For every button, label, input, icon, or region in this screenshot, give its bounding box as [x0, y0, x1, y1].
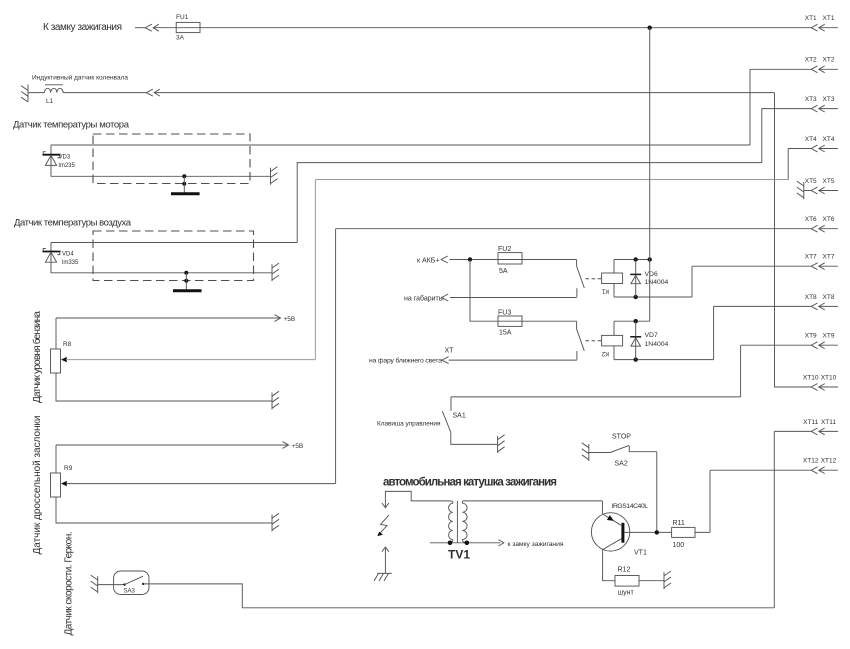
svg-text:R8: R8 — [63, 341, 72, 348]
svg-text:XT12: XT12 — [821, 458, 837, 465]
svg-text:XT5: XT5 — [823, 178, 835, 185]
svg-text:XT8: XT8 — [823, 294, 835, 301]
svg-text:XT6: XT6 — [805, 216, 817, 223]
svg-text:XT9: XT9 — [805, 333, 817, 340]
svg-text:Клавиша управления: Клавиша управления — [377, 420, 441, 427]
svg-text:XT11: XT11 — [821, 419, 836, 426]
svg-text:XT7: XT7 — [805, 254, 817, 261]
svg-text:Датчик дроссельной заслонки: Датчик дроссельной заслонки — [32, 416, 43, 555]
svg-text:Датчик уровня бензина: Датчик уровня бензина — [31, 311, 43, 403]
svg-text:FU3: FU3 — [498, 310, 511, 317]
svg-text:lm235: lm235 — [59, 163, 76, 169]
svg-text:VD3: VD3 — [59, 155, 71, 161]
svg-text:1N4004: 1N4004 — [645, 279, 669, 286]
svg-text:XT5: XT5 — [805, 178, 817, 185]
svg-text:+5В: +5В — [292, 443, 304, 450]
svg-text:3А: 3А — [176, 35, 185, 42]
svg-text:к АКБ+: к АКБ+ — [417, 258, 439, 265]
svg-text:L1: L1 — [46, 98, 54, 105]
svg-text:Датчик температуры воздуха: Датчик температуры воздуха — [14, 218, 132, 229]
svg-text:R12: R12 — [618, 567, 631, 574]
svg-text:1N4004: 1N4004 — [645, 341, 669, 348]
svg-text:15А: 15А — [499, 330, 512, 337]
svg-text:XT10: XT10 — [821, 374, 837, 381]
svg-text:IRGS14C40L: IRGS14C40L — [612, 503, 649, 510]
svg-text:к замку зажигания: к замку зажигания — [508, 541, 564, 548]
svg-text:на фару ближнего света: на фару ближнего света — [369, 357, 442, 365]
svg-text:XT4: XT4 — [823, 136, 835, 143]
svg-text:XT1: XT1 — [823, 15, 835, 22]
svg-text:VT1: VT1 — [634, 550, 647, 557]
svg-text:XT1: XT1 — [805, 15, 817, 22]
svg-text:Датчик температуры мотора: Датчик температуры мотора — [13, 120, 130, 131]
svg-text:Датчик скорости. Геркон.: Датчик скорости. Геркон. — [64, 532, 75, 636]
svg-text:XT11: XT11 — [803, 419, 818, 426]
svg-text:К1: К1 — [601, 288, 609, 295]
svg-text:ХТ: ХТ — [445, 348, 455, 355]
svg-text:шунт: шунт — [618, 590, 635, 597]
svg-text:XT2: XT2 — [805, 57, 817, 64]
svg-text:FU1: FU1 — [176, 14, 189, 21]
svg-text:SA1: SA1 — [453, 413, 466, 420]
svg-text:lm335: lm335 — [62, 260, 79, 266]
svg-text:TV1: TV1 — [448, 548, 470, 562]
svg-text:VD7: VD7 — [645, 332, 658, 339]
svg-text:XT12: XT12 — [803, 458, 819, 465]
svg-text:XT4: XT4 — [805, 136, 817, 143]
svg-text:XT6: XT6 — [823, 216, 835, 223]
svg-text:+5В: +5В — [284, 316, 296, 323]
svg-text:XT8: XT8 — [805, 294, 817, 301]
svg-text:XT3: XT3 — [805, 96, 817, 103]
svg-text:XT10: XT10 — [803, 374, 819, 381]
svg-text:VD6: VD6 — [645, 271, 658, 278]
svg-text:Индуктивный датчик коленвала: Индуктивный датчик коленвала — [32, 74, 128, 82]
svg-text:STOP: STOP — [612, 434, 631, 441]
svg-text:автомобильная катушка зажигани: автомобильная катушка зажигания — [383, 476, 557, 488]
svg-text:XT7: XT7 — [823, 254, 835, 261]
svg-text:SA3: SA3 — [124, 589, 136, 595]
svg-text:SA2: SA2 — [615, 461, 628, 468]
svg-text:XT9: XT9 — [823, 333, 835, 340]
svg-text:XT2: XT2 — [823, 57, 835, 64]
svg-text:100: 100 — [673, 542, 685, 549]
svg-text:5А: 5А — [499, 268, 508, 275]
svg-text:XT3: XT3 — [823, 96, 835, 103]
svg-text:К замку зажигания: К замку зажигания — [43, 22, 122, 33]
svg-text:К2: К2 — [601, 350, 609, 357]
svg-text:FU2: FU2 — [498, 246, 511, 253]
svg-text:на габариты: на габариты — [404, 295, 444, 303]
svg-text:R9: R9 — [64, 465, 73, 472]
svg-text:VD4: VD4 — [62, 252, 74, 258]
svg-text:R11: R11 — [673, 520, 685, 527]
